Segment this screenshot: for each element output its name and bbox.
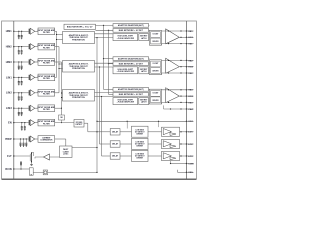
svg-text:HO1: HO1: [188, 37, 193, 39]
svg-text:+ PULSE GEN/FILTER: + PULSE GEN/FILTER: [117, 38, 135, 40]
svg-text:PREVENTION: PREVENTION: [72, 68, 85, 70]
svg-text:LATCH: LATCH: [141, 37, 147, 40]
svg-text:FILTER: FILTER: [43, 63, 50, 65]
svg-text:DRIVER: DRIVER: [137, 146, 144, 148]
svg-text:BIAS NETWORK + VCC UV: BIAS NETWORK + VCC UV: [67, 26, 93, 29]
svg-text:DRIVER: DRIVER: [152, 100, 159, 102]
svg-text:LIN2: LIN2: [6, 92, 12, 95]
svg-text:EN: EN: [8, 122, 12, 125]
svg-text:DRIVER: DRIVER: [137, 134, 144, 136]
svg-text:LATCH: LATCH: [141, 101, 147, 104]
svg-text:UV DET: UV DET: [153, 63, 159, 65]
svg-text:VCC: VCC: [188, 121, 193, 123]
svg-text:ITRIP: ITRIP: [5, 138, 12, 141]
svg-text:FILTER: FILTER: [43, 32, 50, 34]
svg-text:LIN3: LIN3: [6, 107, 12, 110]
svg-text:BIAS NETWORK + UV DET: BIAS NETWORK + UV DET: [119, 62, 144, 65]
svg-text:FILTER: FILTER: [43, 78, 50, 80]
svg-text:CAO: CAO: [188, 108, 193, 111]
svg-text:DELAY: DELAY: [112, 143, 119, 146]
svg-text:DELAY: DELAY: [112, 131, 119, 134]
svg-text:RCIN: RCIN: [5, 168, 12, 171]
svg-text:LIN1: LIN1: [6, 76, 12, 79]
svg-text:HO3: HO3: [188, 96, 193, 98]
svg-text:ADAPTIVE DEADTIME (ADT): ADAPTIVE DEADTIME (ADT): [118, 88, 144, 91]
svg-text:BIAS NETWORK + UV DET: BIAS NETWORK + UV DET: [119, 29, 144, 32]
svg-text:FLT: FLT: [7, 155, 12, 158]
svg-text:HIN2: HIN2: [6, 46, 13, 49]
svg-text:COMPARATOR: COMPARATOR: [40, 139, 53, 142]
svg-text:VSS: VSS: [188, 172, 193, 174]
svg-text:UV DET: UV DET: [153, 92, 159, 94]
svg-text:LATCH: LATCH: [141, 70, 147, 73]
svg-text:HO2: HO2: [188, 67, 193, 69]
svg-text:DRIVER: DRIVER: [152, 70, 159, 72]
svg-text:DETECT: DETECT: [76, 124, 84, 126]
svg-text:FILTER: FILTER: [43, 94, 50, 96]
svg-text:PREVENTION: PREVENTION: [72, 97, 85, 99]
svg-text:LOGIC: LOGIC: [63, 153, 69, 155]
svg-text:HIN1: HIN1: [6, 30, 13, 33]
svg-text:UV DET: UV DET: [153, 34, 159, 36]
svg-text:DRIVER: DRIVER: [152, 41, 159, 43]
svg-text:BIAS NETWORK + UV DET: BIAS NETWORK + UV DET: [119, 93, 144, 96]
svg-text:FILTER: FILTER: [43, 109, 50, 111]
svg-text:+ PULSE GEN/FILTER: + PULSE GEN/FILTER: [117, 102, 135, 104]
svg-text:DELAY: DELAY: [112, 155, 119, 158]
svg-text:COM: COM: [188, 163, 193, 165]
svg-text:HIN3: HIN3: [6, 61, 13, 64]
svg-text:ADAPTIVE DEADTIME (ADT): ADAPTIVE DEADTIME (ADT): [118, 57, 144, 60]
svg-text:FILTER: FILTER: [43, 47, 50, 49]
svg-text:FILTER: FILTER: [43, 123, 50, 125]
svg-text:+ PULSE GEN/FILTER: + PULSE GEN/FILTER: [117, 71, 135, 73]
svg-text:ADAPTIVE DEADTIME (ADT): ADAPTIVE DEADTIME (ADT): [118, 24, 144, 27]
svg-text:PREVENTION: PREVENTION: [72, 39, 85, 41]
svg-text:DRIVER: DRIVER: [137, 158, 144, 160]
